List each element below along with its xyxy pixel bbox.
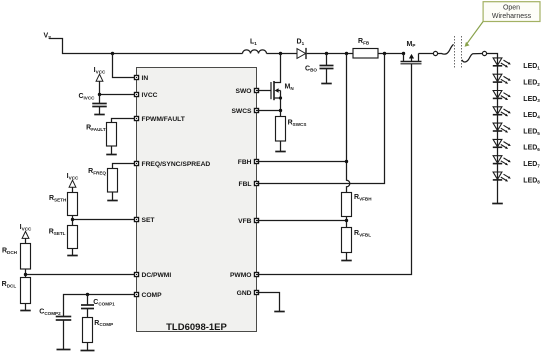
wire R_FREQ to ground xyxy=(112,192,114,201)
wire FBH branch vertical with hop over FBL xyxy=(347,54,350,193)
wire R_FAULT to ground xyxy=(111,146,113,155)
ground C_IVCC xyxy=(94,114,105,116)
wire FBH xyxy=(257,161,347,163)
resistor R_DCH xyxy=(2,244,31,270)
wire VFB xyxy=(257,220,347,222)
harness squiggle left xyxy=(437,44,453,54)
svg-text:VFB: VFB xyxy=(238,218,252,225)
capacitor C_IVCC xyxy=(78,93,106,115)
wire L1 to D1 xyxy=(267,53,298,55)
dashed separation line right xyxy=(461,36,463,67)
supply symbol IVCC (2) xyxy=(67,173,79,187)
svg-text:SWO: SWO xyxy=(236,88,252,95)
diode D1 xyxy=(297,39,307,60)
connector circle right xyxy=(482,51,486,55)
pin DC/PWMI xyxy=(134,272,172,279)
wire SWCS to R_SWCS xyxy=(280,111,282,117)
ground GND pin xyxy=(274,311,285,313)
svg-text:IVCC: IVCC xyxy=(142,92,158,99)
wire R_VFBH to R_VFBL xyxy=(346,217,348,228)
node VFB xyxy=(345,219,348,222)
ground C_COMP2 xyxy=(57,349,71,351)
wire IVCC to R_DCH xyxy=(25,238,27,243)
resistor R_VFBL xyxy=(342,228,372,253)
pin FBH xyxy=(238,159,259,166)
wire COMP xyxy=(64,295,137,317)
ground R_FREQ xyxy=(107,200,118,202)
ground R_SETL xyxy=(67,255,78,257)
LED3 xyxy=(493,91,541,104)
node FBL branch xyxy=(383,52,386,55)
wire M1 drain xyxy=(275,54,281,83)
node M2 drain xyxy=(402,52,405,55)
node IVCC xyxy=(98,93,101,96)
svg-text:FPWM/FAULT: FPWM/FAULT xyxy=(142,116,186,123)
svg-text:FREQ/SYNC/SPREAD: FREQ/SYNC/SPREAD xyxy=(142,161,211,168)
wire R_SETL to ground xyxy=(72,249,74,256)
wire FREQ/SYNC/SPREAD xyxy=(113,164,137,169)
supply symbol IVCC (3) xyxy=(20,224,32,238)
pin FREQ/SYNC/SPREAD xyxy=(134,161,211,168)
dashed separation line left xyxy=(454,36,456,67)
svg-text:Open: Open xyxy=(503,5,520,12)
node IN branch xyxy=(111,52,114,55)
svg-text:TLD6098-1EP: TLD6098-1EP xyxy=(166,322,227,333)
capacitor C_COMP2 xyxy=(39,309,71,350)
wire D1 to R_FB xyxy=(307,53,353,55)
wire R_SETH to R_SETL xyxy=(72,216,74,226)
pin FPWM/FAULT xyxy=(134,116,186,123)
pin GND xyxy=(237,290,260,297)
node DC/PWMI xyxy=(24,273,27,276)
wire R_FB to M2 xyxy=(378,53,404,55)
connector circle left xyxy=(433,51,437,55)
svg-text:FBH: FBH xyxy=(238,159,252,166)
resistor R_COMP xyxy=(83,318,114,343)
wire DC/PWMI xyxy=(26,274,137,276)
wire connector to LED chain xyxy=(486,54,497,204)
pin SWCS xyxy=(231,108,259,115)
svg-text:DC/PWMI: DC/PWMI xyxy=(142,272,172,279)
pin PWMO xyxy=(230,272,259,279)
LED2 xyxy=(493,74,541,87)
pin VFB xyxy=(238,218,259,225)
ground R_COMP xyxy=(81,350,95,352)
IC U1 TLD6098-1EP body xyxy=(137,68,257,334)
pin SWO xyxy=(236,88,260,95)
LED7 xyxy=(493,156,541,169)
wire to IN pin xyxy=(113,54,137,78)
wire R_VFBL to ground xyxy=(346,253,348,261)
resistor R_FAULT xyxy=(86,123,116,147)
ground R_SWCS xyxy=(275,151,286,153)
transistor M1 xyxy=(271,81,294,111)
wire R_DCL to ground xyxy=(25,304,27,311)
capacitor C_COMP1 xyxy=(81,295,115,318)
wire IVCC supply stub xyxy=(99,81,101,94)
wire IVCC node to pin xyxy=(100,94,137,96)
pin IVCC xyxy=(134,92,158,99)
wire Vs to main rail xyxy=(49,39,243,54)
wire SWO gate xyxy=(257,90,272,92)
wire R_DCH to R_DCL xyxy=(25,269,27,278)
ground R_VFBL xyxy=(341,260,352,262)
wire SET xyxy=(73,219,137,221)
wire GND pin xyxy=(257,293,280,312)
svg-text:PWMO: PWMO xyxy=(230,272,252,279)
pin COMP xyxy=(134,292,162,299)
LED chain end bar xyxy=(492,203,503,205)
node SWCS xyxy=(279,109,282,112)
ground R_DCL xyxy=(20,310,31,312)
LED1 xyxy=(493,58,541,71)
wire PWMO to M2 gate xyxy=(257,64,412,275)
wire FBL xyxy=(257,54,385,184)
LED6 xyxy=(493,139,541,152)
pin IN xyxy=(134,75,149,82)
pin FBL xyxy=(239,181,260,188)
wire FPWM/FAULT xyxy=(112,119,137,123)
wire M2 to connector xyxy=(419,53,434,55)
svg-text:GND: GND xyxy=(237,290,252,297)
resistor R_SWCS xyxy=(276,117,307,142)
svg-text:Wireharness: Wireharness xyxy=(492,13,532,20)
resistor R_SETH xyxy=(49,193,78,216)
node switch xyxy=(279,52,282,55)
wire R_SWCS to ground xyxy=(280,141,282,152)
node FBH branch xyxy=(345,52,348,55)
svg-text:COMP: COMP xyxy=(142,292,163,299)
svg-text:SWCS: SWCS xyxy=(231,108,252,115)
svg-text:IN: IN xyxy=(142,75,149,82)
node SET xyxy=(71,218,74,221)
ground R_FAULT xyxy=(106,154,117,156)
capacitor C_BO xyxy=(305,54,333,84)
svg-text:SET: SET xyxy=(142,217,156,224)
resistor R_DCL xyxy=(2,278,31,304)
LED5 xyxy=(493,123,541,136)
transistor M2 xyxy=(401,41,422,64)
pin SET xyxy=(134,217,156,224)
resistor R_VFBH xyxy=(342,193,373,217)
wire IVCC to R_SETH xyxy=(72,187,74,192)
resistor R_FB xyxy=(353,38,378,58)
resistor R_FREQ xyxy=(88,168,117,192)
LED4 xyxy=(493,107,541,120)
ground C_BO xyxy=(321,83,332,85)
node COMP network xyxy=(86,293,89,296)
resistor R_SETL xyxy=(49,226,78,249)
wire R_COMP to ground xyxy=(87,343,89,351)
harness squiggle right xyxy=(462,54,483,63)
node C_BO xyxy=(325,52,328,55)
inductor L1 xyxy=(243,39,267,54)
supply symbol IVCC (1) xyxy=(94,67,106,81)
wire SWCS xyxy=(257,110,281,112)
callout Open Wireharness xyxy=(465,2,540,47)
svg-text:FBL: FBL xyxy=(239,181,252,188)
node FBH xyxy=(345,160,348,163)
LED8 xyxy=(493,172,541,185)
